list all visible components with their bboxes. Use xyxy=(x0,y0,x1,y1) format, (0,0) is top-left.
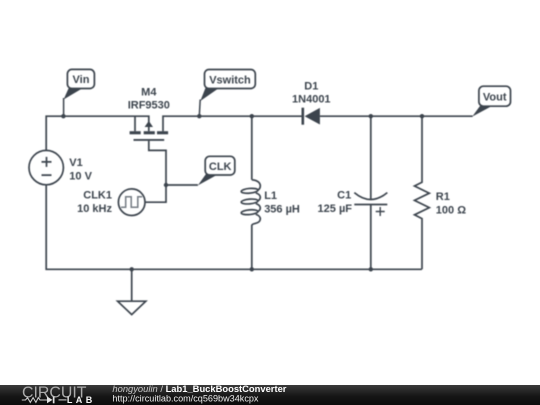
svg-text:LAB: LAB xyxy=(67,395,96,405)
svg-text:http://circuitlab.com/cq569bw3: http://circuitlab.com/cq569bw34kcpx xyxy=(112,393,259,403)
svg-text:hongyoulin / Lab1_BuckBoostCon: hongyoulin / Lab1_BuckBoostConverter xyxy=(112,383,286,394)
